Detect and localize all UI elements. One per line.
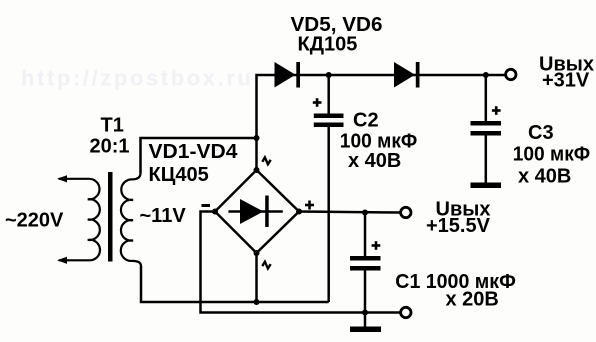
ground under C1 xyxy=(350,327,381,333)
wire C2 column lower xyxy=(327,127,330,303)
bridge rectifier VD1-VD4 xyxy=(215,170,299,253)
svg-text:КЦ405: КЦ405 xyxy=(149,164,209,186)
svg-text:~220V: ~220V xyxy=(5,210,64,232)
transformer secondary winding xyxy=(121,173,141,266)
wire bridge bottom stub xyxy=(255,253,258,303)
wire top rail xyxy=(257,75,505,170)
svg-text:x 20В: x 20В xyxy=(446,288,499,310)
capacitor C3 plates xyxy=(471,121,502,136)
bridge AC tilde top xyxy=(262,157,270,164)
bridge AC tilde bottom xyxy=(262,262,270,269)
diode VD6 xyxy=(394,62,420,88)
wire secondary bottom AC rail xyxy=(141,266,329,302)
svg-text:VD1-VD4: VD1-VD4 xyxy=(149,141,239,163)
svg-text:+15.5V: +15.5V xyxy=(426,215,491,237)
svg-text:x 40В: x 40В xyxy=(348,150,401,172)
terminal +31V xyxy=(506,69,516,79)
svg-text:T1: T1 xyxy=(101,114,124,136)
svg-text:100 мкФ: 100 мкФ xyxy=(513,144,591,166)
svg-text:+31V: +31V xyxy=(542,70,590,92)
terminal common xyxy=(401,307,411,317)
svg-text:C2: C2 xyxy=(353,109,379,131)
svg-text:100 мкФ: 100 мкФ xyxy=(340,130,418,152)
svg-text:~11V: ~11V xyxy=(140,205,187,227)
wire minus and ground rail xyxy=(201,212,400,313)
wire C3 column lower xyxy=(485,135,488,183)
capacitor C2 plus xyxy=(313,98,322,107)
svg-text:x 40В: x 40В xyxy=(518,165,571,187)
svg-text:http://zpostbox.ru: http://zpostbox.ru xyxy=(21,66,254,91)
wire C1 column xyxy=(364,213,367,257)
wire secondary top to bridge xyxy=(141,138,257,173)
capacitor C2 plates xyxy=(314,114,344,128)
junction node dots xyxy=(254,72,489,316)
transformer primary winding xyxy=(59,179,100,261)
svg-text:20:1: 20:1 xyxy=(90,135,130,157)
transformer T1 core xyxy=(108,172,113,262)
wire +15.5V rail xyxy=(299,212,400,213)
capacitor C1 plus xyxy=(372,241,381,250)
bridge corner node dots xyxy=(212,167,302,256)
wire C2 column xyxy=(327,75,330,114)
capacitor C3 plus xyxy=(492,106,501,115)
transformer primary arrow top xyxy=(57,175,67,182)
wire C1 column lower xyxy=(364,270,367,327)
wire C3 column xyxy=(485,75,488,122)
ground under C3 xyxy=(471,183,502,189)
terminal +15.5V xyxy=(401,207,411,217)
svg-text:C3: C3 xyxy=(528,122,554,144)
capacitor C1 plates xyxy=(350,256,381,271)
svg-text:КД105: КД105 xyxy=(298,33,358,55)
bridge minus sign xyxy=(202,204,211,207)
bridge plus sign xyxy=(305,201,314,210)
transformer primary arrow bottom xyxy=(57,257,67,264)
diode VD5 xyxy=(275,62,301,88)
